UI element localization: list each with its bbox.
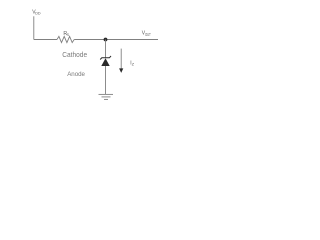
wire junction down to zener cathode — [105, 40, 107, 58]
svg-text:Cathode: Cathode — [62, 50, 87, 59]
current IZ arrow — [119, 49, 123, 73]
wire resistor to output — [74, 39, 158, 41]
zener diode triangle (anode) — [101, 58, 109, 66]
wire VDD to resistor RS — [34, 39, 57, 41]
node VOUT label — [142, 31, 151, 37]
node VDD label — [32, 10, 41, 16]
ground — [99, 94, 114, 99]
svg-text:OUT: OUT — [145, 32, 151, 37]
wire VDD vertical drop — [33, 16, 35, 39]
resistor RS — [57, 36, 74, 42]
svg-text:Anode: Anode — [67, 71, 85, 78]
current IZ label — [130, 60, 135, 66]
svg-text:Z: Z — [132, 62, 135, 66]
resistor RS value label — [63, 31, 69, 37]
wire zener anode to ground — [105, 66, 107, 94]
zener diode cathode bar — [100, 56, 111, 60]
node junction dot — [104, 38, 108, 42]
svg-text:DD: DD — [35, 12, 41, 16]
svg-text:S: S — [67, 33, 70, 37]
